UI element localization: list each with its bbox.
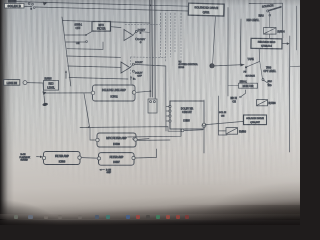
wire branch y66: [68, 66, 121, 67]
wire IC503 output: [137, 138, 149, 141]
wire branch on contact: [66, 41, 86, 43]
junction IC502 out / bus: [149, 90, 151, 92]
switch source select: [267, 7, 281, 28]
wire vertical x218: [219, 96, 228, 135]
wire source loop top: [249, 2, 283, 4]
wire selector1 out: [137, 31, 149, 32]
junction bus/top rails: [149, 5, 151, 7]
potentiometer RV506: [257, 100, 277, 106]
wire lower top rail: [24, 6, 189, 11]
junction arrow rec input: [42, 91, 46, 95]
wire branch y49: [67, 42, 103, 49]
wire branch y56: [66, 56, 120, 57]
switch S505-1 mpx filter: [75, 25, 94, 45]
wire branch to mpx switch: [65, 34, 86, 36]
wire IC502 output to bus: [136, 91, 150, 92]
wire vertical x241: [239, 19, 242, 66]
node monitor out connector: [202, 100, 206, 153]
wire left diagonal feeder: [62, 17, 71, 86]
amplifier IC505 dolby NR circuit: [169, 101, 206, 132]
connector TMA03: [8, 0, 17, 3]
wire row y140: [134, 139, 170, 141]
transistor Q513,514 rec/mon bias: [251, 38, 282, 49]
wire row y137: [128, 129, 182, 137]
wire selector2 out to IC505 feed: [134, 64, 166, 131]
wire upper top rail: [17, 2, 189, 7]
label B-CH playback sound: [20, 154, 43, 162]
switch C/O top-left: [28, 2, 35, 11]
wire branch y78: [69, 78, 128, 80]
switch NR IN: [231, 90, 246, 104]
amplifier IC506 filter amp: [42, 152, 81, 165]
connector LINE IN: [4, 80, 27, 86]
wire IC507 output: [135, 149, 156, 158]
junction lower row: [88, 126, 90, 128]
wire Q513 output arrow: [282, 42, 290, 45]
transistor Q521 solenoid drive: [188, 3, 224, 16]
label BIAS: [259, 14, 271, 17]
switch dolby selector 1: [124, 30, 146, 44]
wire mon-for box to x228: [228, 85, 239, 87]
wire right vertical lower: [288, 36, 290, 152]
filter MPX FILTER: [92, 22, 111, 32]
wire IC503 input drop: [90, 128, 96, 141]
label B-CH skip: [99, 169, 112, 175]
wire main lower row: [80, 127, 181, 132]
potentiometer RV505 rec level: [44, 79, 59, 91]
wire right vertical upper: [282, 3, 284, 38]
junction arrow on top rail: [43, 2, 48, 6]
switch tape/source monitor: [244, 49, 260, 77]
wire bus vertical pair: [150, 0, 155, 99]
amplifier IC502 deluxe line amp: [91, 85, 136, 101]
node B to system control: [179, 62, 215, 69]
potentiometer RV503: [226, 128, 247, 135]
switch dolby selector 2: [121, 62, 143, 78]
power +B arrow left: [65, 70, 67, 78]
wire RV503 stub: [219, 130, 227, 132]
switch src/7hd: [260, 62, 273, 88]
connector 1503-1 MON FDR: [239, 81, 258, 88]
wire IC505 bottom stub: [184, 129, 203, 132]
wire Q521 to node B: [213, 16, 216, 64]
ground stub below junction: [42, 96, 48, 107]
wire line-in to junction: [27, 83, 43, 92]
wire opt level to edge: [290, 65, 300, 67]
wire diagonal junction to lower row: [84, 93, 90, 126]
transistor Q503,507 sol/mon drive: [244, 115, 267, 125]
amplifier IC507 filter amp: [97, 153, 135, 166]
amplifier IC503 mpx filter amp: [96, 133, 137, 147]
potentiometer RV504: [264, 28, 286, 39]
wire node B to tape switch: [215, 65, 244, 66]
switch SOL IN: [219, 112, 227, 118]
wire filter box top border: [63, 21, 151, 24]
power B+ 7AV: [130, 76, 136, 84]
connector SOLBX B: [5, 3, 25, 8]
wire IC505 pin stubs: [166, 107, 169, 122]
wire IC506 to IC507: [81, 157, 97, 160]
wire right edge frame: [295, 6, 297, 50]
junction circle row y138: [133, 138, 135, 140]
wire node to Q503: [206, 121, 244, 124]
wire junction to IC502: [44, 92, 91, 94]
wire left vertical x228: [227, 8, 229, 97]
wire dashed control lines: [125, 13, 181, 80]
wire mpx filter out: [111, 27, 121, 28]
connector bus terminal: [148, 99, 157, 113]
taskbar icons: [14, 215, 18, 219]
label 7503 OPT LEVEL: [264, 67, 277, 73]
